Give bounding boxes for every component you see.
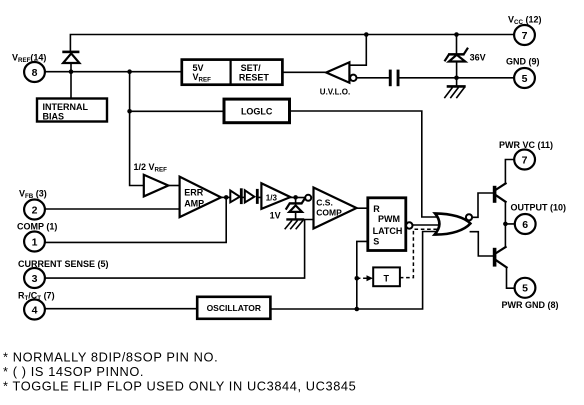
svg-text:VCC (12): VCC (12) <box>508 15 541 27</box>
svg-text:VFB (3): VFB (3) <box>19 189 47 201</box>
svg-text:7: 7 <box>522 30 528 42</box>
svg-text:C.S.: C.S. <box>316 197 333 207</box>
svg-text:S: S <box>373 237 379 247</box>
svg-text:AMP: AMP <box>184 198 204 208</box>
svg-text:ERR: ERR <box>184 187 204 197</box>
svg-text:8: 8 <box>32 67 38 79</box>
svg-text:1: 1 <box>32 236 38 248</box>
svg-text:GND (9): GND (9) <box>506 57 540 67</box>
svg-text:T: T <box>384 273 390 283</box>
svg-text:7: 7 <box>522 154 528 166</box>
svg-text:4: 4 <box>32 304 38 316</box>
svg-text:SET/: SET/ <box>241 63 262 73</box>
svg-text:* NORMALLY 8DIP/8SOP PIN NO.: * NORMALLY 8DIP/8SOP PIN NO. <box>3 350 218 365</box>
svg-text:U.V.L.O.: U.V.L.O. <box>320 87 350 96</box>
svg-text:3: 3 <box>32 273 38 285</box>
svg-text:2: 2 <box>32 204 38 216</box>
svg-text:1/3: 1/3 <box>266 194 278 203</box>
svg-text:OUTPUT (10): OUTPUT (10) <box>511 203 567 213</box>
svg-text:BIAS: BIAS <box>43 112 65 122</box>
svg-text:COMP: COMP <box>316 208 342 218</box>
svg-text:5: 5 <box>522 73 528 85</box>
svg-text:INTERNAL: INTERNAL <box>43 102 89 112</box>
svg-text:* ( ) IS 14SOP PINNO.: * ( ) IS 14SOP PINNO. <box>3 364 144 379</box>
svg-text:1V: 1V <box>270 210 281 220</box>
svg-text:PWR VC (11): PWR VC (11) <box>499 140 553 150</box>
svg-text:RESET: RESET <box>239 73 270 83</box>
svg-text:OSCILLATOR: OSCILLATOR <box>207 303 261 313</box>
svg-text:COMP (1): COMP (1) <box>17 222 57 232</box>
svg-text:LOGLC: LOGLC <box>241 107 273 117</box>
svg-text:* TOGGLE FLIP FLOP USED ONLY I: * TOGGLE FLIP FLOP USED ONLY IN UC3844, … <box>3 379 356 394</box>
svg-text:PWR GND (8): PWR GND (8) <box>502 300 559 310</box>
svg-text:5: 5 <box>522 283 528 295</box>
svg-text:R: R <box>373 204 380 214</box>
svg-text:RT/CT (7): RT/CT (7) <box>18 291 55 303</box>
svg-text:36V: 36V <box>470 53 486 63</box>
svg-text:PWM: PWM <box>378 214 400 224</box>
svg-text:6: 6 <box>522 219 528 231</box>
svg-text:CURRENT SENSE (5): CURRENT SENSE (5) <box>18 259 109 269</box>
svg-text:LATCH: LATCH <box>373 226 403 236</box>
